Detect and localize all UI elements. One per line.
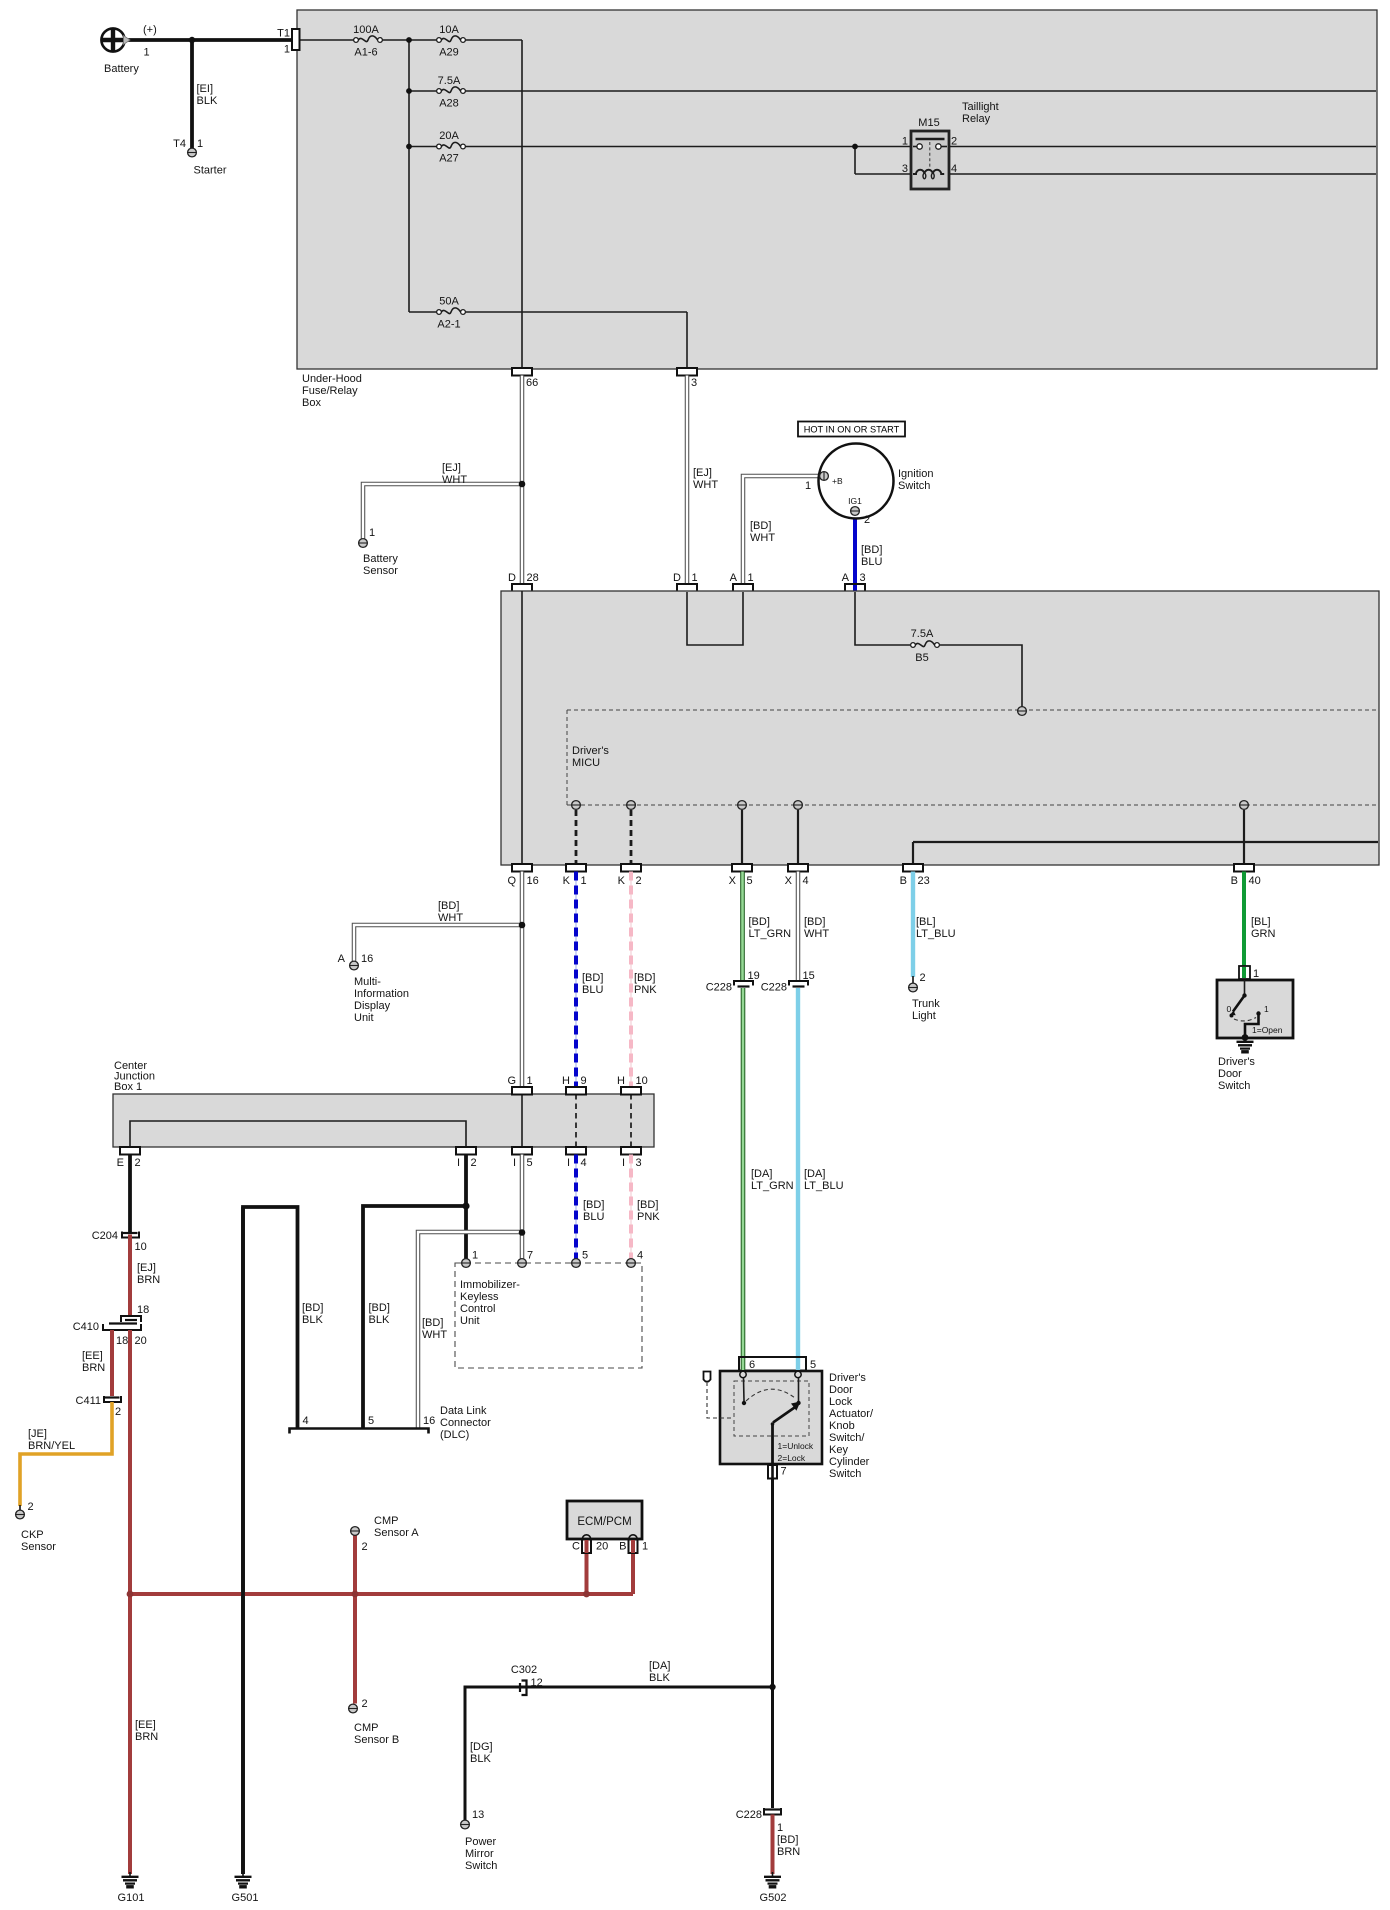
svg-text:[BD]: [BD] [750,520,771,532]
svg-text:K: K [618,875,626,887]
svg-text:1: 1 [1264,1004,1269,1014]
svg-text:10: 10 [636,1075,648,1087]
svg-text:18: 18 [137,1304,149,1316]
svg-text:BLU: BLU [861,556,882,568]
svg-text:Keyless: Keyless [460,1291,499,1303]
svg-text:B5: B5 [915,652,928,664]
svg-text:[EJ]: [EJ] [137,1262,156,1274]
svg-text:I: I [622,1157,625,1169]
svg-text:G501: G501 [232,1892,259,1904]
svg-text:2: 2 [864,514,870,526]
svg-text:2: 2 [951,136,957,148]
svg-text:3: 3 [636,1157,642,1169]
svg-text:Switch: Switch [898,480,930,492]
svg-text:Unit: Unit [460,1315,480,1327]
svg-text:Driver's: Driver's [572,745,609,757]
svg-text:B: B [900,875,907,887]
svg-text:[BD]: [BD] [777,1834,798,1846]
svg-text:Driver's: Driver's [1218,1056,1255,1068]
svg-text:Immobilizer-: Immobilizer- [460,1279,520,1291]
svg-text:1: 1 [527,1075,533,1087]
svg-text:A2-1: A2-1 [437,319,460,331]
svg-text:Driver's: Driver's [829,1372,866,1384]
svg-text:16: 16 [361,953,373,965]
svg-text:WHT: WHT [804,928,829,940]
svg-text:[BD]: [BD] [749,916,770,928]
svg-text:LT_BLU: LT_BLU [916,928,956,940]
svg-text:A28: A28 [439,98,459,110]
svg-text:BRN: BRN [777,1846,800,1858]
svg-text:BLK: BLK [369,1314,390,1326]
svg-text:1: 1 [197,138,203,150]
svg-text:A1-6: A1-6 [354,47,377,59]
svg-text:C228: C228 [736,1809,762,1821]
svg-text:[EE]: [EE] [82,1350,103,1362]
svg-text:3: 3 [860,572,866,584]
svg-text:[EJ]: [EJ] [693,467,712,479]
svg-text:6: 6 [749,1359,755,1371]
svg-text:[BD]: [BD] [422,1317,443,1329]
svg-text:1: 1 [1253,968,1259,980]
svg-text:1: 1 [642,1541,648,1553]
svg-text:B: B [619,1541,626,1553]
svg-text:19: 19 [748,970,760,982]
svg-text:[BD]: [BD] [861,544,882,556]
svg-text:Power: Power [465,1836,497,1848]
svg-text:Cylinder: Cylinder [829,1456,870,1468]
svg-text:Information: Information [354,988,409,1000]
svg-text:C: C [572,1541,580,1553]
svg-text:2: 2 [362,1698,368,1710]
svg-text:C411: C411 [76,1395,101,1407]
svg-text:Sensor A: Sensor A [374,1527,419,1539]
svg-text:C204: C204 [92,1230,118,1242]
svg-text:Battery: Battery [363,553,398,565]
svg-text:IG1: IG1 [848,496,862,506]
svg-text:2=Lock: 2=Lock [778,1453,806,1463]
svg-text:D: D [508,572,516,584]
svg-text:100A: 100A [353,24,379,36]
svg-text:BRN: BRN [135,1731,158,1743]
svg-text:1: 1 [805,480,811,492]
svg-text:C228: C228 [761,982,787,994]
svg-text:WHT: WHT [422,1329,447,1341]
svg-text:Battery: Battery [104,63,139,75]
svg-text:BLK: BLK [470,1753,491,1765]
svg-text:Door: Door [829,1384,853,1396]
svg-text:(DLC): (DLC) [440,1429,469,1441]
svg-text:X: X [729,875,737,887]
svg-text:H: H [562,1075,570,1087]
svg-text:Switch: Switch [829,1468,861,1480]
svg-text:PNK: PNK [634,984,657,996]
svg-text:X: X [785,875,793,887]
svg-text:WHT: WHT [693,479,718,491]
svg-text:2: 2 [636,875,642,887]
svg-text:BRN: BRN [137,1274,160,1286]
svg-text:1: 1 [902,136,908,148]
svg-text:Q: Q [507,875,516,887]
svg-text:D: D [673,572,681,584]
svg-text:CMP: CMP [374,1515,398,1527]
svg-text:Box: Box [302,397,321,409]
svg-text:[BD]: [BD] [438,900,459,912]
svg-text:[DA]: [DA] [649,1660,670,1672]
svg-text:Door: Door [1218,1068,1242,1080]
svg-text:I: I [567,1157,570,1169]
svg-text:Taillight: Taillight [962,101,999,113]
svg-text:GRN: GRN [1251,928,1276,940]
svg-text:7.5A: 7.5A [438,75,461,87]
svg-text:WHT: WHT [442,474,467,486]
svg-text:3: 3 [691,377,697,389]
svg-text:5: 5 [747,875,753,887]
svg-text:4: 4 [303,1415,309,1427]
svg-text:Starter: Starter [194,165,227,177]
svg-text:B: B [1231,875,1238,887]
svg-text:[EE]: [EE] [135,1719,156,1731]
svg-text:[BD]: [BD] [302,1302,323,1314]
svg-text:A: A [730,572,738,584]
svg-text:C410: C410 [73,1321,99,1333]
svg-text:4: 4 [803,875,809,887]
svg-text:1: 1 [472,1250,478,1262]
svg-text:I: I [457,1157,460,1169]
svg-text:1=Open: 1=Open [1252,1025,1283,1035]
svg-text:5: 5 [810,1359,816,1371]
svg-text:A: A [338,953,346,965]
svg-text:+B: +B [832,476,843,486]
svg-text:HOT IN ON OR START: HOT IN ON OR START [804,425,900,435]
svg-text:5: 5 [527,1157,533,1169]
svg-text:T4: T4 [173,138,186,150]
svg-text:Mirror: Mirror [465,1848,494,1860]
svg-text:4: 4 [581,1157,587,1169]
svg-text:H: H [617,1075,625,1087]
svg-text:3: 3 [902,163,908,175]
svg-text:7: 7 [527,1250,533,1262]
svg-text:C302: C302 [511,1664,537,1676]
svg-text:10: 10 [135,1241,147,1253]
svg-text:Control: Control [460,1303,495,1315]
svg-text:T1: T1 [277,28,290,40]
svg-text:CMP: CMP [354,1722,378,1734]
svg-text:BLK: BLK [302,1314,323,1326]
svg-text:BLU: BLU [582,984,603,996]
svg-text:1: 1 [777,1822,783,1834]
svg-text:C228: C228 [706,982,732,994]
svg-text:23: 23 [918,875,930,887]
svg-text:G101: G101 [118,1892,145,1904]
svg-text:BRN: BRN [82,1362,105,1374]
svg-text:1: 1 [284,44,290,56]
svg-text:2: 2 [135,1157,141,1169]
svg-text:Knob: Knob [829,1420,855,1432]
svg-text:Box 1: Box 1 [114,1081,142,1093]
svg-text:5: 5 [582,1250,588,1262]
svg-text:10A: 10A [439,24,459,36]
svg-text:ECM/PCM: ECM/PCM [577,1516,631,1528]
svg-text:[EJ]: [EJ] [442,462,461,474]
svg-text:A29: A29 [439,47,459,59]
svg-text:[BD]: [BD] [634,972,655,984]
svg-text:1: 1 [692,572,698,584]
svg-text:Actuator/: Actuator/ [829,1408,874,1420]
svg-text:K: K [563,875,571,887]
svg-text:BLK: BLK [197,95,218,107]
svg-text:15: 15 [803,970,815,982]
svg-text:Connector: Connector [440,1417,491,1429]
svg-text:1: 1 [748,572,754,584]
svg-text:[EI]: [EI] [197,83,214,95]
svg-text:16: 16 [423,1415,435,1427]
svg-text:Ignition: Ignition [898,468,933,480]
svg-text:20: 20 [135,1335,147,1347]
svg-text:[DA]: [DA] [751,1168,772,1180]
svg-text:9: 9 [581,1075,587,1087]
svg-text:2: 2 [28,1501,34,1513]
svg-text:50A: 50A [439,296,459,308]
svg-text:CKP: CKP [21,1529,44,1541]
svg-text:BRN/YEL: BRN/YEL [28,1440,75,1452]
svg-text:BLK: BLK [649,1672,670,1684]
svg-text:13: 13 [472,1809,484,1821]
svg-text:I: I [513,1157,516,1169]
svg-text:Multi-: Multi- [354,976,381,988]
svg-text:Sensor: Sensor [21,1541,56,1553]
svg-text:Switch: Switch [1218,1080,1250,1092]
svg-text:20A: 20A [439,130,459,142]
svg-text:G502: G502 [760,1892,787,1904]
svg-text:12: 12 [531,1677,543,1689]
svg-text:Sensor: Sensor [363,565,398,577]
svg-text:2: 2 [920,972,926,984]
svg-text:A: A [842,572,850,584]
svg-text:PNK: PNK [637,1211,660,1223]
svg-text:Switch/: Switch/ [829,1432,865,1444]
svg-text:M15: M15 [918,117,939,129]
svg-text:WHT: WHT [438,912,463,924]
svg-text:[DG]: [DG] [470,1741,493,1753]
svg-text:0: 0 [1227,1004,1232,1014]
svg-text:1: 1 [144,47,150,59]
svg-text:Relay: Relay [962,113,991,125]
svg-text:16: 16 [527,875,539,887]
svg-text:5: 5 [368,1415,374,1427]
svg-text:Display: Display [354,1000,391,1012]
svg-text:[BL]: [BL] [916,916,936,928]
svg-text:1=Unlock: 1=Unlock [778,1441,814,1451]
svg-text:Fuse/Relay: Fuse/Relay [302,385,358,397]
svg-text:[BD]: [BD] [583,1199,604,1211]
svg-text:WHT: WHT [750,532,775,544]
svg-text:A27: A27 [439,153,459,165]
svg-text:20: 20 [596,1541,608,1553]
svg-text:18: 18 [116,1335,128,1347]
svg-text:7.5A: 7.5A [911,628,934,640]
svg-text:2: 2 [471,1157,477,1169]
svg-text:2: 2 [115,1406,121,1418]
svg-text:LT_BLU: LT_BLU [804,1180,844,1192]
svg-text:[BD]: [BD] [582,972,603,984]
svg-text:LT_GRN: LT_GRN [751,1180,794,1192]
svg-text:[BL]: [BL] [1251,916,1271,928]
svg-text:BLU: BLU [583,1211,604,1223]
svg-text:Trunk: Trunk [912,998,940,1010]
svg-text:Lock: Lock [829,1396,853,1408]
svg-text:28: 28 [527,572,539,584]
svg-text:4: 4 [951,163,957,175]
svg-text:Unit: Unit [354,1012,374,1024]
svg-text:[BD]: [BD] [804,916,825,928]
svg-text:1: 1 [369,527,375,539]
svg-text:LT_GRN: LT_GRN [749,928,792,940]
svg-text:[DA]: [DA] [804,1168,825,1180]
svg-text:(+): (+) [143,24,157,36]
svg-text:Sensor B: Sensor B [354,1734,399,1746]
svg-text:[BD]: [BD] [369,1302,390,1314]
svg-text:Light: Light [912,1010,936,1022]
svg-text:E: E [117,1157,124,1169]
svg-text:66: 66 [526,377,538,389]
svg-text:1: 1 [581,875,587,887]
svg-text:Under-Hood: Under-Hood [302,373,362,385]
svg-text:Switch: Switch [465,1860,497,1872]
svg-text:[JE]: [JE] [28,1428,47,1440]
svg-text:Key: Key [829,1444,848,1456]
svg-text:2: 2 [362,1541,368,1553]
svg-text:40: 40 [1249,875,1261,887]
svg-text:G: G [507,1075,516,1087]
svg-text:Data Link: Data Link [440,1405,487,1417]
svg-text:7: 7 [781,1466,787,1478]
svg-text:[BD]: [BD] [637,1199,658,1211]
svg-text:MICU: MICU [572,757,600,769]
svg-text:4: 4 [637,1250,643,1262]
